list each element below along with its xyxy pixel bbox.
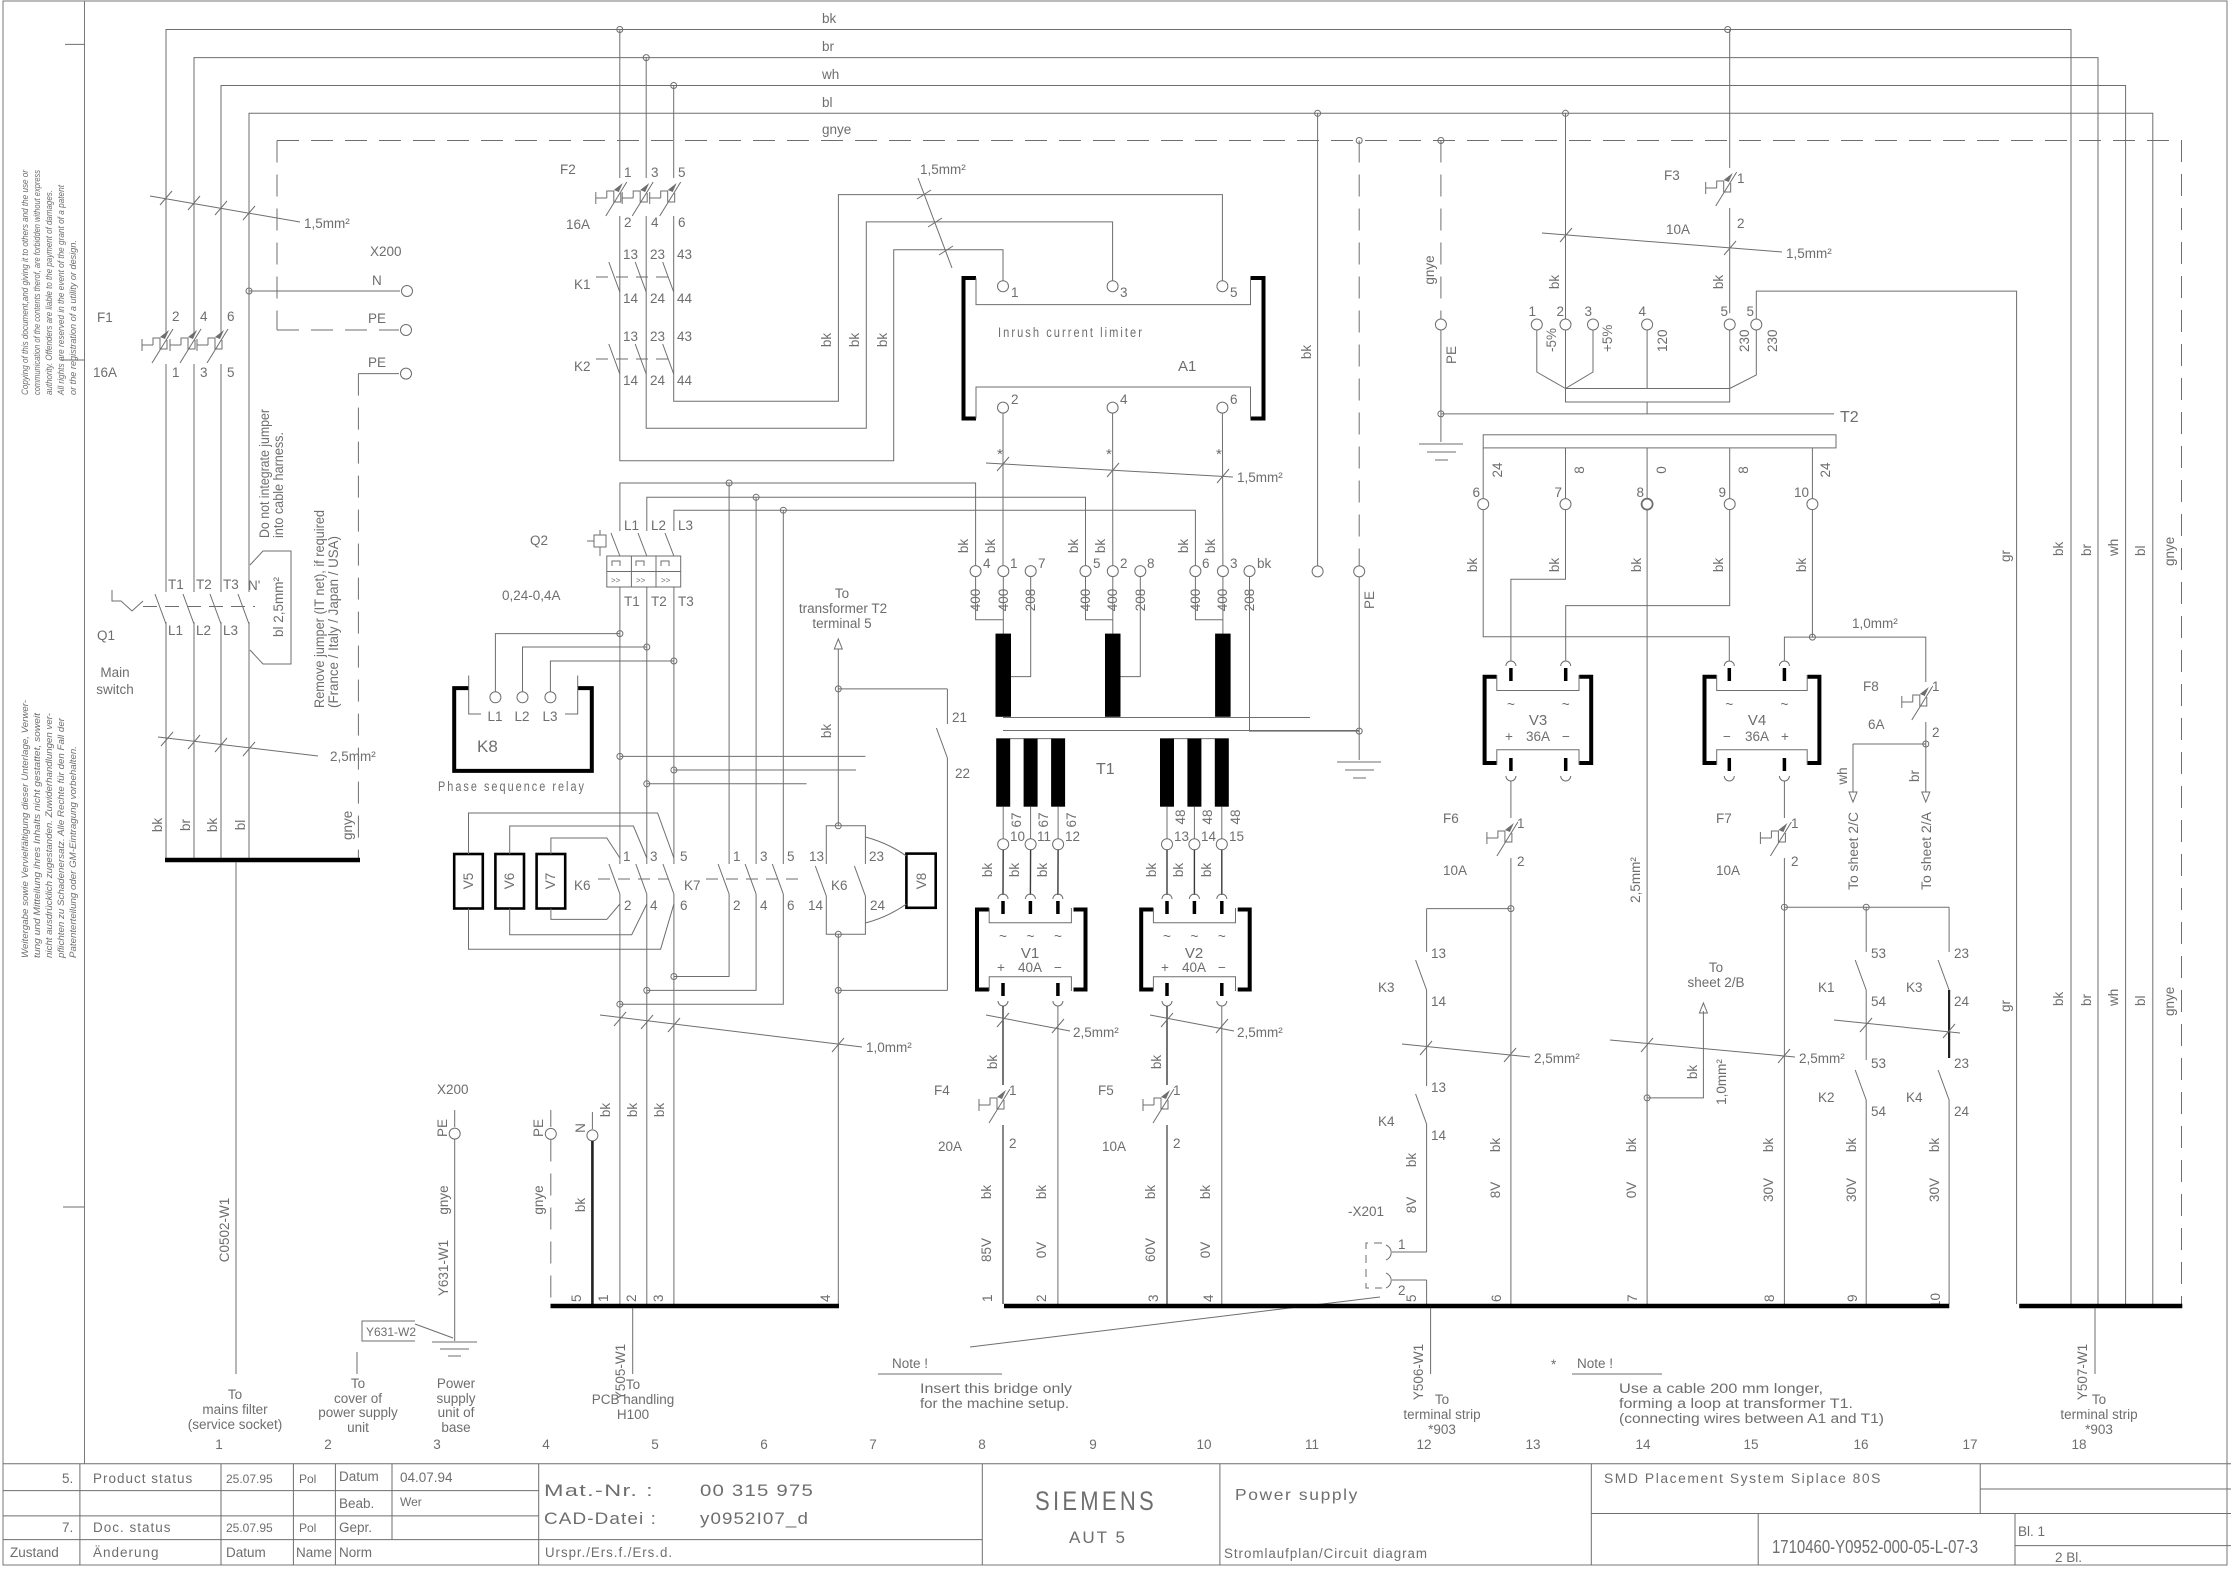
svg-text:3: 3	[1146, 1294, 1161, 1302]
svg-text:2: 2	[1932, 725, 1940, 740]
svg-text:1: 1	[1173, 1083, 1181, 1098]
right bus labels upper	[2051, 537, 2177, 566]
connector X200 bottom	[362, 1082, 598, 1356]
svg-text:gnye: gnye	[2162, 987, 2177, 1016]
svg-text:T1: T1	[624, 594, 640, 609]
svg-text:bk: bk	[1035, 863, 1050, 878]
svg-text:F1: F1	[97, 310, 113, 325]
bus wh top	[221, 67, 2126, 1304]
svg-text:Q1: Q1	[97, 628, 115, 643]
svg-text:bk: bk	[1093, 539, 1108, 554]
svg-text:1710460-Y0952-000-05-L-07-3: 1710460-Y0952-000-05-L-07-3	[1772, 1537, 1978, 1557]
svg-text:PE: PE	[1362, 591, 1377, 609]
junction lower	[835, 987, 841, 993]
svg-text:gnye: gnye	[340, 811, 355, 840]
svg-text:14: 14	[1431, 1128, 1447, 1143]
svg-text:12: 12	[1416, 1437, 1431, 1452]
svg-text:3: 3	[200, 365, 208, 380]
svg-text:25.07.95: 25.07.95	[226, 1521, 273, 1535]
svg-text:5: 5	[1720, 304, 1728, 319]
svg-text:Y507-W1: Y507-W1	[2075, 1344, 2090, 1400]
labels above bar V1/V2 wires	[979, 1185, 1216, 1302]
wire A1-4 to T1-2	[1112, 413, 1114, 565]
svg-text:53: 53	[1871, 946, 1886, 961]
fuse F5	[1098, 1083, 1181, 1154]
svg-text:bk: bk	[1143, 1185, 1158, 1200]
wire K8-L2	[523, 647, 647, 692]
svg-text:10: 10	[1196, 1437, 1211, 1452]
svg-text:24: 24	[650, 291, 666, 306]
bk labels below T2	[1465, 558, 1809, 573]
svg-text:K7: K7	[684, 878, 701, 893]
svg-text:bk: bk	[1149, 1055, 1164, 1070]
svg-text:1: 1	[1009, 1083, 1017, 1098]
svg-text:+: +	[1505, 729, 1513, 744]
svg-text:14: 14	[808, 898, 824, 913]
svg-text:24: 24	[1954, 1104, 1970, 1119]
svg-text:F3: F3	[1664, 168, 1680, 183]
svg-text:54: 54	[1871, 994, 1887, 1009]
svg-text:bk: bk	[1927, 1138, 1942, 1153]
svg-text:bk: bk	[1547, 275, 1562, 290]
cable marker K1 K3	[1834, 1018, 1960, 1038]
wires T1 to V1	[1003, 850, 1222, 895]
svg-text:L1: L1	[487, 709, 502, 724]
contact K1 aux	[574, 247, 693, 306]
svg-text:bk: bk	[625, 1103, 640, 1118]
svg-text:6: 6	[678, 215, 686, 230]
svg-text:10A: 10A	[1716, 863, 1740, 878]
fuse F4	[934, 1083, 1017, 1154]
svg-text:Main: Main	[100, 665, 129, 680]
svg-text:−: −	[1218, 960, 1226, 975]
svg-text:Doc. status: Doc. status	[93, 1520, 172, 1535]
svg-text:2: 2	[733, 898, 741, 913]
svg-text:To: To	[1709, 960, 1723, 975]
svg-text:~: ~	[1190, 929, 1198, 944]
svg-text:5: 5	[1404, 1294, 1419, 1302]
svg-text:13: 13	[1431, 946, 1446, 961]
svg-text:9: 9	[1089, 1437, 1097, 1452]
svg-text:8: 8	[1572, 466, 1587, 474]
svg-text:V6: V6	[502, 873, 517, 890]
svg-text:1: 1	[1737, 171, 1745, 186]
contact K3 right	[1906, 907, 1970, 1058]
svg-text:~: ~	[1218, 929, 1226, 944]
svg-text:5: 5	[1093, 556, 1101, 571]
wire V2+ to F5	[1166, 1006, 1168, 1085]
connector X201	[970, 1204, 1427, 1347]
right bus labels lower	[2051, 987, 2177, 1016]
svg-text:bk: bk	[1007, 863, 1022, 878]
cable marker 1,5mm2 below A1	[986, 457, 1283, 485]
svg-text:Pol: Pol	[299, 1521, 316, 1535]
svg-text:gnye: gnye	[531, 1185, 546, 1214]
cable marker 1,5mm2 to A1	[917, 162, 966, 268]
svg-text:1: 1	[624, 165, 632, 180]
svg-text:3: 3	[650, 849, 658, 864]
svg-text:11: 11	[1305, 1437, 1319, 1452]
svg-text:7: 7	[1038, 556, 1046, 571]
svg-text:L3: L3	[223, 623, 238, 638]
svg-text:F4: F4	[934, 1083, 950, 1098]
svg-text:10: 10	[1794, 485, 1809, 500]
svg-text:8: 8	[1762, 1294, 1777, 1302]
svg-text:Weitergabe sowie Vervielfältig: Weitergabe sowie Vervielfältigung dieser…	[20, 700, 31, 958]
svg-text:L3: L3	[678, 518, 693, 533]
svg-text:bl: bl	[233, 820, 248, 831]
wire Q2-L1 to T1-4	[620, 483, 976, 566]
svg-text:2: 2	[1556, 304, 1564, 319]
svg-text:L2: L2	[514, 709, 529, 724]
svg-text:~: ~	[1780, 697, 1788, 712]
svg-text:36A: 36A	[1745, 729, 1769, 744]
svg-text:0V: 0V	[1198, 1242, 1213, 1259]
svg-text:*: *	[1551, 1357, 1557, 1372]
busbar 2	[1004, 1304, 1949, 1309]
svg-text:2: 2	[172, 309, 180, 324]
busbar 1	[551, 1304, 840, 1309]
svg-text:3: 3	[651, 165, 659, 180]
svg-text:br: br	[822, 39, 835, 54]
bus bl top	[249, 95, 2153, 1304]
svg-text:(service socket): (service socket)	[188, 1417, 283, 1432]
junction bk/F2	[617, 27, 623, 33]
svg-text:1: 1	[1398, 1237, 1406, 1252]
T1 secondary bars left	[996, 738, 1065, 740]
svg-text:14: 14	[623, 373, 639, 388]
svg-text:23: 23	[650, 329, 665, 344]
svg-text:5: 5	[678, 165, 686, 180]
svg-text:tung und Mitteilung ihres Inha: tung und Mitteilung ihres Inhalts nicht …	[32, 713, 43, 958]
svg-text:into cable harness.: into cable harness.	[271, 432, 286, 538]
svg-text:To: To	[626, 1377, 640, 1392]
svg-text:bk: bk	[598, 1103, 613, 1118]
svg-text:-X201: -X201	[1348, 1204, 1384, 1219]
svg-text:~: ~	[1562, 697, 1570, 712]
svg-text:13: 13	[623, 247, 638, 262]
svg-text:Urspr./Ers.f./Ers.d.: Urspr./Ers.f./Ers.d.	[545, 1545, 673, 1560]
svg-text:6: 6	[1202, 556, 1210, 571]
svg-text:13: 13	[1431, 1080, 1446, 1095]
svg-text:bl: bl	[2133, 995, 2148, 1006]
rectifier V3	[1485, 661, 1592, 781]
svg-text:1: 1	[980, 1294, 995, 1302]
svg-text:bk: bk	[875, 333, 890, 348]
wire K7-1	[728, 483, 730, 864]
svg-text:25.07.95: 25.07.95	[226, 1472, 273, 1486]
T2 secondary terminals	[1472, 448, 1833, 510]
varistor V6	[495, 854, 524, 909]
svg-text:Datum: Datum	[226, 1545, 266, 1560]
svg-text:Do not integrate jumper: Do not integrate jumper	[257, 409, 272, 538]
svg-text:21: 21	[952, 710, 967, 725]
bus gnye dashed	[277, 141, 2182, 1305]
fuse F8	[1853, 679, 1940, 747]
terminal PE gnd	[454, 1110, 456, 1127]
svg-text:8V: 8V	[1488, 1182, 1503, 1199]
svg-text:K6: K6	[574, 878, 591, 893]
svg-text:SIEMENS: SIEMENS	[1035, 1486, 1157, 1516]
copyright text left column (rotated)	[20, 169, 79, 959]
svg-text:40A: 40A	[1018, 960, 1042, 975]
svg-text:bk: bk	[1066, 539, 1081, 554]
svg-text:4: 4	[1201, 1294, 1216, 1302]
svg-text:Insert this bridge only: Insert this bridge only	[920, 1381, 1072, 1396]
wire 21/22 drop	[946, 689, 948, 724]
svg-text:30V: 30V	[1844, 1178, 1859, 1202]
arrow wire to T2-5	[834, 639, 842, 649]
contact K1 right	[1784, 904, 1949, 1060]
bus bk top	[166, 11, 2071, 1304]
svg-text:K4: K4	[1906, 1090, 1923, 1105]
svg-text:5: 5	[227, 365, 235, 380]
varistor V8	[865, 837, 935, 923]
svg-text:To sheet 2/C: To sheet 2/C	[1846, 812, 1861, 890]
svg-text:K2: K2	[574, 359, 591, 374]
svg-text:67: 67	[1064, 812, 1079, 827]
wire 24V to F8	[1784, 637, 1925, 682]
svg-text:Y631-W2: Y631-W2	[366, 1325, 416, 1339]
svg-text:+5%: +5%	[1600, 325, 1615, 352]
svg-text:1,0mm²: 1,0mm²	[1852, 616, 1898, 631]
svg-text:bl: bl	[2133, 545, 2148, 556]
svg-text:for the machine setup.: for the machine setup.	[920, 1396, 1069, 1411]
svg-text:10A: 10A	[1102, 1139, 1126, 1154]
wire F2 pole2	[645, 58, 647, 178]
transformer T2	[1441, 409, 1859, 448]
svg-text:48: 48	[1200, 809, 1215, 824]
svg-text:Copying of this document,and g: Copying of this document,and giving it t…	[20, 169, 31, 395]
wire Y506-W1	[1411, 1308, 1431, 1400]
text to terminal strip 903	[1403, 1392, 1480, 1437]
svg-text:bk: bk	[985, 1055, 1000, 1070]
svg-text:13: 13	[809, 849, 824, 864]
svg-text:y0952I07_d: y0952I07_d	[700, 1509, 809, 1528]
note use cable	[1551, 1356, 1884, 1426]
svg-text:1: 1	[733, 849, 741, 864]
svg-text:To: To	[351, 1376, 365, 1391]
0V wire branch to sheet 2/B	[1644, 960, 1744, 1105]
rectifier V2	[1141, 894, 1250, 1006]
ground T1	[1337, 761, 1381, 763]
svg-text:bk: bk	[150, 818, 165, 833]
svg-text:16: 16	[1853, 1437, 1868, 1452]
svg-text:8: 8	[978, 1437, 986, 1452]
callout bl 2,5mm2	[248, 551, 291, 664]
svg-text:PE: PE	[435, 1119, 450, 1137]
cable marker V2	[1150, 1013, 1283, 1040]
svg-text:terminal 5: terminal 5	[812, 616, 871, 631]
contact block K6 13/23	[808, 823, 886, 938]
svg-text:15: 15	[1743, 1437, 1758, 1452]
wire T2-10	[1811, 510, 1813, 637]
svg-text:43: 43	[677, 329, 692, 344]
svg-text:8V: 8V	[1404, 1197, 1419, 1214]
svg-text:17: 17	[1962, 1437, 1977, 1452]
svg-text:6: 6	[680, 898, 688, 913]
svg-text:2 Bl.: 2 Bl.	[2055, 1550, 2082, 1565]
svg-text:PE: PE	[1444, 346, 1459, 364]
svg-text:Wer: Wer	[400, 1495, 422, 1509]
svg-text:T2: T2	[651, 594, 667, 609]
svg-text:L1: L1	[168, 623, 183, 638]
svg-text:CAD-Datei :: CAD-Datei :	[544, 1509, 657, 1528]
svg-text:60V: 60V	[1143, 1238, 1158, 1262]
svg-text:2: 2	[1173, 1136, 1181, 1151]
svg-text:N: N	[573, 1123, 588, 1133]
text to transformer T2	[799, 586, 887, 631]
wire V1+ to F4	[1002, 1006, 1004, 1085]
svg-text:gr: gr	[1998, 549, 2013, 562]
wire Y505-W1	[613, 1308, 633, 1400]
svg-text:PCB handling: PCB handling	[592, 1392, 675, 1407]
terminal PE bar	[550, 1110, 552, 1127]
svg-text:~: ~	[1026, 929, 1034, 944]
wire Q2-L2 to T1-5	[647, 497, 1086, 565]
wire V1- down	[1057, 1006, 1059, 1304]
svg-text:forming a loop at transformer: forming a loop at transformer T1.	[1619, 1396, 1853, 1411]
svg-text:T2: T2	[1840, 409, 1859, 426]
svg-text:PE: PE	[531, 1119, 546, 1137]
svg-text:13: 13	[1174, 829, 1189, 844]
svg-text:~: ~	[1507, 697, 1515, 712]
contact K4 left	[1378, 1080, 1447, 1252]
svg-text:1: 1	[1791, 816, 1799, 831]
svg-text:4: 4	[200, 309, 208, 324]
svg-text:6: 6	[787, 898, 795, 913]
svg-text:L1: L1	[624, 518, 639, 533]
svg-text:2: 2	[1517, 854, 1525, 869]
cable marker 1,0mm2	[600, 1012, 912, 1055]
busbar right	[2019, 1304, 2182, 1309]
svg-text:22: 22	[955, 766, 970, 781]
text to cover of power supply unit	[318, 1352, 398, 1435]
contact 21/22	[936, 710, 970, 990]
svg-text:Patenterteilung oder GM-Eintra: Patenterteilung oder GM-Eintragung vorbe…	[68, 746, 79, 958]
cable marker 1,5mm2 T2	[1542, 228, 1832, 261]
svg-text:bk: bk	[1629, 558, 1644, 573]
svg-text:8: 8	[1736, 466, 1751, 474]
svg-text:1: 1	[623, 849, 631, 864]
svg-text:K2: K2	[1818, 1090, 1835, 1105]
svg-text:bk: bk	[980, 863, 995, 878]
svg-text:1: 1	[1932, 679, 1940, 694]
wire F1 pole1 bk	[165, 30, 167, 326]
svg-text:K3: K3	[1906, 980, 1923, 995]
svg-text:7: 7	[1625, 1294, 1640, 1302]
svg-text:bk: bk	[1144, 863, 1159, 878]
junction gnye PE T2	[1356, 138, 1362, 144]
svg-text:1,5mm²: 1,5mm²	[920, 162, 966, 177]
svg-text:unit of: unit of	[438, 1405, 475, 1420]
svg-text:bk: bk	[1547, 558, 1562, 573]
svg-text:bk: bk	[1176, 539, 1191, 554]
svg-text:pflichten zu Schadenersatz. Al: pflichten zu Schadenersatz. Alle Rechte …	[56, 717, 67, 959]
svg-text:~: ~	[999, 929, 1007, 944]
svg-text:6: 6	[1230, 392, 1238, 407]
svg-text:T1: T1	[1096, 761, 1115, 778]
T2 primary funnel	[1537, 330, 1757, 414]
junction bl wire1565	[1563, 110, 1569, 116]
svg-text:terminal strip: terminal strip	[1403, 1407, 1480, 1422]
svg-text:2,5mm²: 2,5mm²	[1237, 1025, 1283, 1040]
wire gnye PE2 dashed	[357, 374, 359, 858]
wire C0502-W1	[217, 862, 236, 1374]
svg-text:3: 3	[651, 1294, 666, 1302]
svg-text:bk: bk	[2051, 541, 2066, 556]
svg-text:V5: V5	[461, 873, 476, 890]
svg-text:H100: H100	[617, 1407, 649, 1422]
bk labels above T1 terminals	[956, 539, 1218, 554]
branch to contact 21/22	[835, 686, 841, 692]
svg-text:transformer T2: transformer T2	[799, 601, 887, 616]
svg-text:To sheet 2/A: To sheet 2/A	[1919, 812, 1934, 890]
svg-text:cover of: cover of	[334, 1391, 382, 1406]
svg-text:24: 24	[650, 373, 666, 388]
title mat-nr	[544, 1481, 814, 1528]
contact K6 main	[574, 849, 688, 913]
svg-text:43: 43	[677, 247, 692, 262]
junction bk/F3	[1725, 27, 1731, 33]
svg-text:bk: bk	[205, 818, 220, 833]
fuse F6	[1443, 781, 1525, 1304]
svg-text:2,5mm²: 2,5mm²	[1073, 1025, 1119, 1040]
svg-text:(France / Italy / Japan / USA): (France / Italy / Japan / USA)	[326, 536, 341, 708]
svg-text:bk: bk	[1203, 539, 1218, 554]
svg-text:44: 44	[677, 373, 693, 388]
ground Y631	[432, 1341, 477, 1343]
wire T2-7 to V3	[1511, 510, 1566, 661]
svg-text:4: 4	[542, 1437, 550, 1452]
inrush current limiter A1	[964, 278, 1264, 419]
svg-text:bk: bk	[956, 539, 971, 554]
svg-text:To: To	[228, 1387, 242, 1402]
svg-text:F7: F7	[1716, 811, 1732, 826]
svg-text:Note !: Note !	[1577, 1356, 1613, 1371]
junction br/F2	[643, 55, 649, 61]
svg-text:Remove jumper (IT net), if req: Remove jumper (IT net), if required	[312, 510, 327, 708]
wire voltage labels right	[1404, 1138, 1943, 1308]
svg-text:To: To	[835, 586, 849, 601]
svg-text:2: 2	[1011, 392, 1019, 407]
wire K8-L1	[495, 634, 620, 692]
svg-text:T2: T2	[196, 577, 212, 592]
svg-text:br: br	[2079, 543, 2094, 556]
wire 0V T2-8 down	[1646, 510, 1648, 1304]
svg-text:11: 11	[1037, 829, 1051, 844]
svg-text:authority. Offenders are liabl: authority. Offenders are liable to the p…	[44, 190, 55, 395]
svg-text:gnye: gnye	[2162, 537, 2177, 566]
svg-text:bk: bk	[819, 724, 834, 739]
svg-text:1: 1	[1011, 285, 1019, 300]
svg-text:*903: *903	[1428, 1422, 1456, 1437]
varistor V5	[454, 854, 483, 909]
svg-text:T3: T3	[678, 594, 694, 609]
contact K2 aux	[574, 329, 693, 388]
svg-text:>>: >>	[636, 576, 646, 585]
svg-text:230: 230	[1737, 329, 1752, 352]
svg-text:5: 5	[1746, 304, 1754, 319]
svg-text:2: 2	[1737, 216, 1745, 231]
svg-text:Änderung: Änderung	[93, 1545, 160, 1560]
text to PCB handling	[592, 1377, 675, 1422]
wire V2- down	[1221, 1006, 1223, 1304]
svg-text:Note !: Note !	[892, 1356, 928, 1371]
terminal N bar	[591, 1112, 593, 1129]
400/208 labels	[968, 589, 1257, 612]
wire labels bk bk bk	[819, 333, 890, 348]
